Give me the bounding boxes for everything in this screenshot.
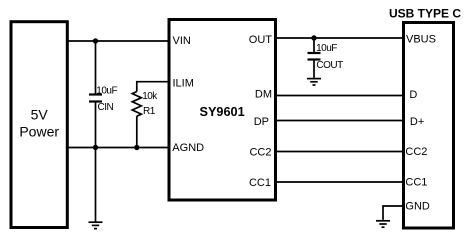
junction dot VIN net <box>93 38 98 43</box>
wire CC1 net <box>276 181 404 183</box>
svg-text:10uF: 10uF <box>96 85 117 96</box>
wire AGND net (5V to AGND pin) <box>67 147 169 149</box>
svg-text:DM: DM <box>255 89 272 101</box>
capacitor C1 CIN plates <box>89 95 102 102</box>
junction dot AGND/R1 <box>134 145 139 150</box>
svg-text:5V: 5V <box>31 107 49 123</box>
USB Type C connector block <box>389 6 461 228</box>
svg-text:CC2: CC2 <box>405 146 427 158</box>
capacitor C2 COUT plates <box>308 53 321 60</box>
svg-text:AGND: AGND <box>172 142 204 154</box>
svg-text:VIN: VIN <box>173 35 191 47</box>
svg-text:OUT: OUT <box>249 34 273 46</box>
svg-text:R1: R1 <box>143 106 156 117</box>
wire R1 bottom to AGND <box>136 116 138 147</box>
svg-text:USB TYPE C: USB TYPE C <box>389 6 461 20</box>
resistor R1 zigzag <box>132 92 141 117</box>
svg-text:10uF: 10uF <box>316 43 337 54</box>
wire DP net (DP to D+) <box>276 120 404 122</box>
wire VIN net (5V to VIN pin) <box>67 40 169 42</box>
svg-text:DP: DP <box>254 116 269 128</box>
svg-text:10k: 10k <box>142 91 158 102</box>
IC U1 SY9601 body <box>169 20 276 201</box>
wire COUT top stub <box>313 38 315 52</box>
svg-text:COUT: COUT <box>316 60 343 71</box>
svg-text:Power: Power <box>19 124 59 140</box>
svg-text:D+: D+ <box>410 116 424 128</box>
wire COUT bottom stub to ground <box>313 60 315 77</box>
svg-text:SY9601: SY9601 <box>200 105 245 119</box>
wire OUT net (OUT pin to VBUS) <box>276 37 404 39</box>
ground symbol (COUT) <box>307 79 321 85</box>
5V power source block <box>11 22 67 228</box>
svg-text:CIN: CIN <box>98 102 114 113</box>
ground symbol (CIN) <box>89 222 103 228</box>
svg-text:CC1: CC1 <box>405 176 427 188</box>
svg-text:D: D <box>409 89 417 101</box>
svg-text:VBUS: VBUS <box>406 33 436 45</box>
wire CIN bottom stub down to ground <box>95 102 97 221</box>
wire DM net (DM to D) <box>276 95 404 97</box>
wire CC2 net <box>276 151 404 153</box>
svg-text:GND: GND <box>405 201 430 213</box>
svg-text:CC2: CC2 <box>249 147 271 159</box>
wire ILIM net (R1 top to ILIM pin) <box>137 82 169 92</box>
junction dot OUT/COUT <box>311 35 316 40</box>
junction dot AGND/CIN <box>93 145 98 150</box>
svg-text:CC1: CC1 <box>249 177 271 189</box>
ground symbol (USB GND) <box>376 221 390 227</box>
wire GND net (GND pin to ground) <box>383 206 404 220</box>
svg-text:ILIM: ILIM <box>173 78 194 90</box>
wire CIN top stub <box>95 41 97 94</box>
